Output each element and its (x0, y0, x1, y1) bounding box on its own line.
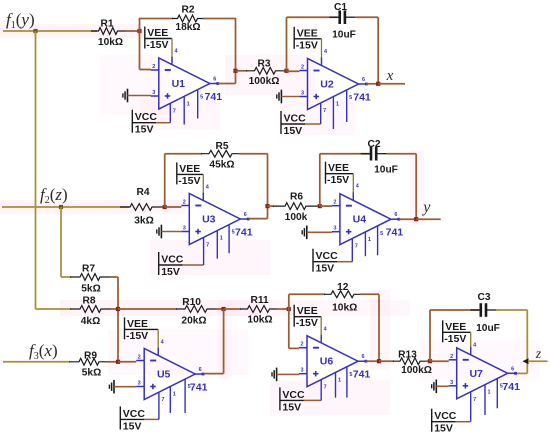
ground U4 non-inverting (302, 226, 307, 240)
wire U6 output (366, 360, 379, 362)
svg-text:6: 6 (199, 367, 202, 373)
svg-text:6: 6 (511, 366, 514, 372)
wire U6 feedback top right (360, 293, 379, 295)
svg-text:15V: 15V (135, 124, 154, 136)
wire U5 input bus vertical (117, 277, 119, 362)
wire R9 to input bus (108, 361, 118, 363)
svg-text:10kΩ: 10kΩ (332, 303, 357, 314)
node junction R1/feedback (137, 29, 141, 33)
svg-text:5: 5 (500, 384, 503, 390)
svg-text:741: 741 (205, 91, 223, 103)
svg-text:R3: R3 (257, 59, 270, 70)
svg-text:R10: R10 (182, 297, 201, 308)
wire R10 to output node (215, 308, 224, 310)
VCC supply U5 (120, 379, 190, 432)
svg-text:4kΩ: 4kΩ (81, 316, 101, 327)
svg-text:3: 3 (152, 90, 155, 96)
svg-text:3: 3 (301, 91, 304, 97)
svg-text:2: 2 (333, 200, 336, 206)
wire U6 feedback left vertical (288, 294, 290, 348)
wire U2 inverting input (287, 70, 300, 72)
svg-text:15V: 15V (161, 266, 180, 278)
VEE supply U1 (145, 27, 179, 65)
resistor R9 (69, 351, 109, 379)
svg-text:741: 741 (235, 227, 253, 239)
svg-text:6: 6 (213, 77, 216, 83)
svg-text:100kΩ: 100kΩ (249, 76, 280, 87)
resistor R11 (240, 295, 277, 325)
svg-text:10uF: 10uF (476, 323, 500, 334)
svg-text:100kΩ: 100kΩ (401, 365, 432, 376)
svg-text:6: 6 (244, 212, 247, 218)
svg-text:10kΩ: 10kΩ (98, 37, 123, 48)
svg-text:3: 3 (450, 380, 453, 386)
op-amp U1 (151, 58, 222, 109)
svg-text:-15V: -15V (444, 333, 466, 345)
wire U6 feedback top left (289, 293, 325, 295)
node junction R11/U6 feedback (287, 307, 291, 311)
svg-text:2: 2 (301, 65, 304, 71)
node f3(x) input label (29, 341, 58, 362)
wire U7 feedback right vertical (526, 310, 528, 373)
svg-text:741: 741 (386, 227, 404, 239)
wire R7 to input bus vertical (109, 276, 118, 278)
wire U2 feedback top right (355, 16, 378, 18)
svg-text:20kΩ: 20kΩ (181, 316, 206, 327)
VCC supply U6 (280, 367, 353, 414)
svg-text:100k: 100k (285, 212, 308, 223)
svg-text:2: 2 (152, 64, 155, 70)
svg-text:-15V: -15V (296, 317, 318, 329)
svg-text:12: 12 (337, 282, 349, 293)
ground U5 non-inverting (109, 380, 114, 394)
svg-text:C2: C2 (367, 139, 380, 150)
svg-text:2: 2 (138, 355, 141, 361)
svg-text:18kΩ: 18kΩ (175, 22, 200, 33)
svg-text:1: 1 (187, 101, 190, 107)
svg-text:7: 7 (473, 397, 476, 403)
svg-text:VEE: VEE (297, 305, 318, 317)
wire U2 feedback top left (287, 16, 338, 18)
svg-text:1: 1 (487, 390, 490, 396)
svg-text:VEE: VEE (445, 321, 466, 333)
svg-text:-15V: -15V (126, 330, 148, 342)
svg-text:5: 5 (349, 372, 352, 378)
wire R1 to U1 input node (125, 30, 140, 32)
wire U2 ground to + input (281, 96, 299, 98)
svg-text:VCC: VCC (161, 254, 184, 266)
VEE supply U2 (294, 27, 328, 66)
wire U1 output (218, 83, 236, 85)
svg-text:C1: C1 (334, 2, 347, 13)
wire U3 feedback right vertical (267, 154, 269, 219)
svg-text:6: 6 (361, 354, 364, 360)
wire U4 feedback right vertical (415, 154, 417, 220)
wire U7 output to feedback (514, 372, 527, 374)
wire U3 inverting input (165, 206, 182, 208)
resistor R7 (70, 264, 110, 295)
wire R11 to U6 node (276, 308, 289, 310)
wire R4 to U3 node (161, 206, 165, 208)
svg-text:2: 2 (183, 200, 186, 206)
node junction R3/U2 feedback (284, 69, 288, 73)
wire f2 bus to R7 (61, 276, 71, 278)
wire U3 feedback left vertical (164, 154, 166, 207)
svg-text:R2: R2 (181, 5, 194, 16)
svg-text:7: 7 (173, 108, 176, 114)
svg-text:VEE: VEE (179, 163, 200, 175)
svg-text:y: y (421, 199, 431, 216)
svg-text:U1: U1 (172, 78, 186, 90)
svg-text:3: 3 (333, 226, 336, 232)
VEE supply U4 (326, 162, 360, 201)
VCC supply U1 (132, 90, 203, 136)
wire U1 feedback right vertical (235, 18, 237, 84)
svg-text:15V: 15V (123, 420, 142, 432)
wire U2 feedback left vertical (286, 17, 288, 71)
resistor R10 (176, 297, 216, 327)
svg-text:R7: R7 (82, 264, 95, 275)
resistor R5 (201, 141, 240, 171)
wire U6 ground to + input (277, 373, 299, 375)
node junction U6 output/R13 (377, 359, 381, 363)
svg-text:R6: R6 (290, 192, 303, 203)
resistor R6 (273, 192, 318, 224)
op-amp U5 (136, 349, 207, 400)
wire U7 feedback top right (496, 309, 527, 311)
VEE supply U7 (443, 320, 477, 355)
svg-text:-15V: -15V (327, 174, 349, 186)
wire U2 feedback right vertical (377, 17, 379, 84)
wire U7 feedback top left (430, 309, 479, 311)
wire f3 input to R9 (3, 361, 70, 363)
op-amp U2 (300, 59, 371, 110)
wire U3 feedback top right (239, 153, 268, 155)
wire U4 inverting input (320, 205, 332, 207)
node z tap arrow (523, 358, 529, 364)
resistor R3 (246, 59, 284, 88)
resistor R12 (324, 282, 361, 314)
resistor R2 (172, 5, 203, 34)
wire U5 inverting input (118, 361, 136, 363)
svg-text:5: 5 (232, 230, 235, 236)
op-amp U6 (299, 336, 370, 387)
svg-text:5: 5 (380, 231, 383, 237)
wire U4 output (399, 218, 416, 220)
svg-text:10kΩ: 10kΩ (247, 314, 272, 325)
svg-text:45kΩ: 45kΩ (209, 160, 234, 171)
wire output x (378, 83, 405, 85)
wire U1 feedback left vertical (139, 18, 141, 70)
svg-text:5: 5 (200, 95, 203, 101)
svg-text:U5: U5 (157, 369, 171, 381)
svg-text:VCC: VCC (434, 410, 457, 422)
svg-text:f2(z): f2(z) (40, 185, 68, 206)
node junction U2 output x (376, 82, 380, 86)
svg-text:x: x (386, 68, 394, 84)
svg-text:U6: U6 (320, 356, 334, 368)
wire f2 vertical bus down to R7 (60, 207, 62, 277)
wire node to R11 (224, 308, 241, 310)
svg-text:VCC: VCC (282, 389, 305, 401)
wire U4 feedback left vertical (319, 154, 321, 206)
svg-text:3kΩ: 3kΩ (134, 216, 154, 227)
svg-text:7: 7 (323, 108, 326, 114)
wire node to R10 (118, 308, 177, 310)
VEE supply U3 (177, 162, 210, 200)
node y output label (421, 199, 431, 216)
wire f1 bus to R8 (36, 308, 72, 310)
capacitor C3 (470, 292, 499, 334)
wire U7 ground to + input (436, 385, 448, 387)
svg-text:2: 2 (300, 342, 303, 348)
svg-text:1: 1 (336, 102, 339, 108)
wire output z (528, 360, 548, 362)
wire U3 ground to + input (161, 231, 181, 233)
svg-text:7: 7 (206, 242, 209, 248)
node junction f2/vertical (59, 205, 63, 209)
ground U6 non-inverting (272, 368, 277, 382)
VCC supply U2 (281, 90, 352, 137)
wire U4 ground to + input (307, 231, 332, 233)
svg-text:741: 741 (353, 92, 371, 104)
wire U5 feedback vertical (223, 309, 225, 374)
svg-text:R8: R8 (82, 296, 95, 307)
svg-text:f3(x): f3(x) (29, 341, 58, 362)
svg-text:741: 741 (353, 369, 371, 381)
svg-text:R11: R11 (251, 295, 269, 306)
svg-text:z: z (535, 347, 542, 362)
svg-text:10uF: 10uF (332, 30, 356, 41)
wire output y (416, 218, 441, 220)
svg-text:3: 3 (138, 381, 141, 387)
svg-text:VCC: VCC (284, 113, 307, 125)
wire U6 inverting input (289, 347, 299, 349)
svg-text:15V: 15V (282, 401, 301, 413)
node junction U3 output/R6 (265, 204, 269, 208)
ground U2 non-inverting (277, 90, 282, 104)
svg-text:U4: U4 (353, 214, 367, 226)
op-amp U7 (449, 348, 520, 399)
ground U1 non-inverting (123, 89, 128, 103)
svg-text:3: 3 (183, 226, 186, 232)
wire node to R6 (268, 205, 275, 207)
svg-text:6: 6 (394, 212, 397, 218)
resistor R1 (91, 19, 125, 49)
node junction R6/U4 feedback (318, 204, 322, 208)
svg-text:-15V: -15V (146, 39, 168, 51)
wire U1 inverting input (140, 69, 152, 71)
wire R8 to input bus (110, 308, 118, 310)
svg-text:VCC: VCC (135, 111, 158, 123)
svg-text:1: 1 (220, 236, 223, 242)
svg-text:VCC: VCC (316, 250, 339, 262)
node junction U4 output y (414, 217, 418, 221)
svg-text:VEE: VEE (328, 162, 349, 174)
svg-text:5: 5 (349, 95, 352, 101)
svg-text:5kΩ: 5kΩ (81, 284, 101, 295)
svg-text:U3: U3 (202, 214, 216, 226)
svg-text:6: 6 (362, 77, 365, 83)
svg-text:15V: 15V (434, 423, 453, 435)
wire U3 output (249, 218, 268, 220)
svg-text:R9: R9 (84, 351, 97, 362)
wire f2 input to R4 (2, 206, 129, 208)
node junction R8/R10 bus (116, 307, 120, 311)
svg-text:7: 7 (161, 397, 164, 403)
VEE supply U5 (125, 317, 165, 355)
svg-text:R4: R4 (136, 187, 149, 198)
svg-text:-15V: -15V (296, 39, 318, 51)
wire U7 inverting input (430, 360, 449, 362)
wire node to R3 (236, 70, 248, 72)
svg-text:10uF: 10uF (374, 165, 398, 176)
svg-text:R1: R1 (100, 19, 113, 30)
wire U7 feedback left vertical (429, 310, 431, 361)
wire U6 feedback right vertical (378, 294, 380, 361)
svg-text:VEE: VEE (147, 27, 168, 39)
resistor R4 (120, 187, 162, 227)
ground U3 non-inverting (157, 225, 162, 239)
capacitor C1 (329, 2, 356, 41)
wire f1 vertical bus down to R8 (35, 31, 37, 309)
resistor R8 (70, 296, 111, 328)
svg-text:1: 1 (173, 391, 176, 397)
wire U3 feedback top left (165, 153, 202, 155)
svg-text:1: 1 (368, 237, 371, 243)
svg-text:U2: U2 (320, 79, 334, 91)
svg-text:VEE: VEE (127, 318, 148, 330)
svg-text:U7: U7 (469, 368, 483, 380)
svg-text:VEE: VEE (297, 27, 318, 39)
svg-text:C3: C3 (477, 292, 490, 303)
svg-text:741: 741 (190, 382, 208, 394)
resistor R13 (393, 350, 432, 377)
svg-text:f1(y): f1(y) (6, 10, 35, 31)
node f2(z) input label (40, 185, 68, 206)
wire f1 input to R1 (3, 30, 97, 32)
node junction R9/U5 input (116, 360, 120, 364)
wire U1 feedback top left (140, 18, 174, 20)
node junction f1/vertical (33, 29, 37, 33)
svg-text:3: 3 (300, 368, 303, 374)
svg-text:R5: R5 (215, 141, 228, 152)
VCC supply U7 (432, 379, 503, 435)
node junction R13/U7 feedback (428, 359, 432, 363)
VEE supply U6 (294, 305, 327, 343)
svg-text:R13: R13 (398, 350, 417, 361)
svg-text:2: 2 (450, 354, 453, 360)
node junction U1 output/R3 (233, 69, 237, 73)
wire node to R13 (379, 360, 394, 362)
svg-text:7: 7 (324, 385, 327, 391)
svg-text:VCC: VCC (123, 408, 146, 420)
wire R13 to U7 node (426, 360, 430, 362)
VCC supply U3 (159, 225, 235, 278)
node junction R10/R11/U5 out (222, 307, 226, 311)
node junction R4/U3 feedback (163, 205, 167, 209)
wire R3 to U2 node (283, 70, 287, 72)
wire U5 ground to + input (114, 386, 136, 388)
VCC supply U4 (313, 226, 383, 275)
wire R6 to U4 node (317, 205, 320, 207)
node z output label (535, 347, 542, 362)
op-amp U3 (181, 194, 252, 245)
wire U4 feedback top left (320, 153, 370, 155)
svg-text:15V: 15V (316, 263, 335, 275)
svg-text:1: 1 (338, 377, 341, 383)
capacitor C2 (361, 139, 398, 176)
node f1(y) input label (6, 10, 35, 31)
wire U2 output (367, 83, 379, 85)
op-amp U4 (332, 194, 403, 245)
ground U7 non-inverting (432, 380, 437, 394)
wire U4 feedback top right (387, 153, 417, 155)
svg-text:5: 5 (188, 384, 191, 390)
wire U5 output (204, 373, 224, 375)
wire U1 ground to + input (128, 95, 152, 97)
svg-text:15V: 15V (284, 125, 303, 137)
svg-text:-15V: -15V (178, 175, 200, 187)
node x output label (386, 68, 394, 84)
svg-text:5kΩ: 5kΩ (82, 367, 102, 378)
svg-text:7: 7 (355, 244, 358, 250)
wire U1 feedback top right (203, 18, 236, 20)
svg-text:741: 741 (502, 381, 520, 393)
